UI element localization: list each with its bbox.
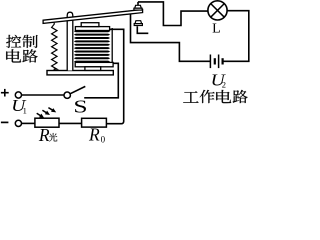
svg-text:0: 0: [101, 134, 106, 144]
svg-text:L: L: [212, 22, 221, 37]
svg-text:R: R: [88, 125, 100, 145]
svg-text:S: S: [73, 96, 87, 116]
svg-text:1: 1: [23, 105, 27, 115]
svg-text:2: 2: [222, 80, 226, 90]
svg-text:R: R: [38, 125, 50, 145]
